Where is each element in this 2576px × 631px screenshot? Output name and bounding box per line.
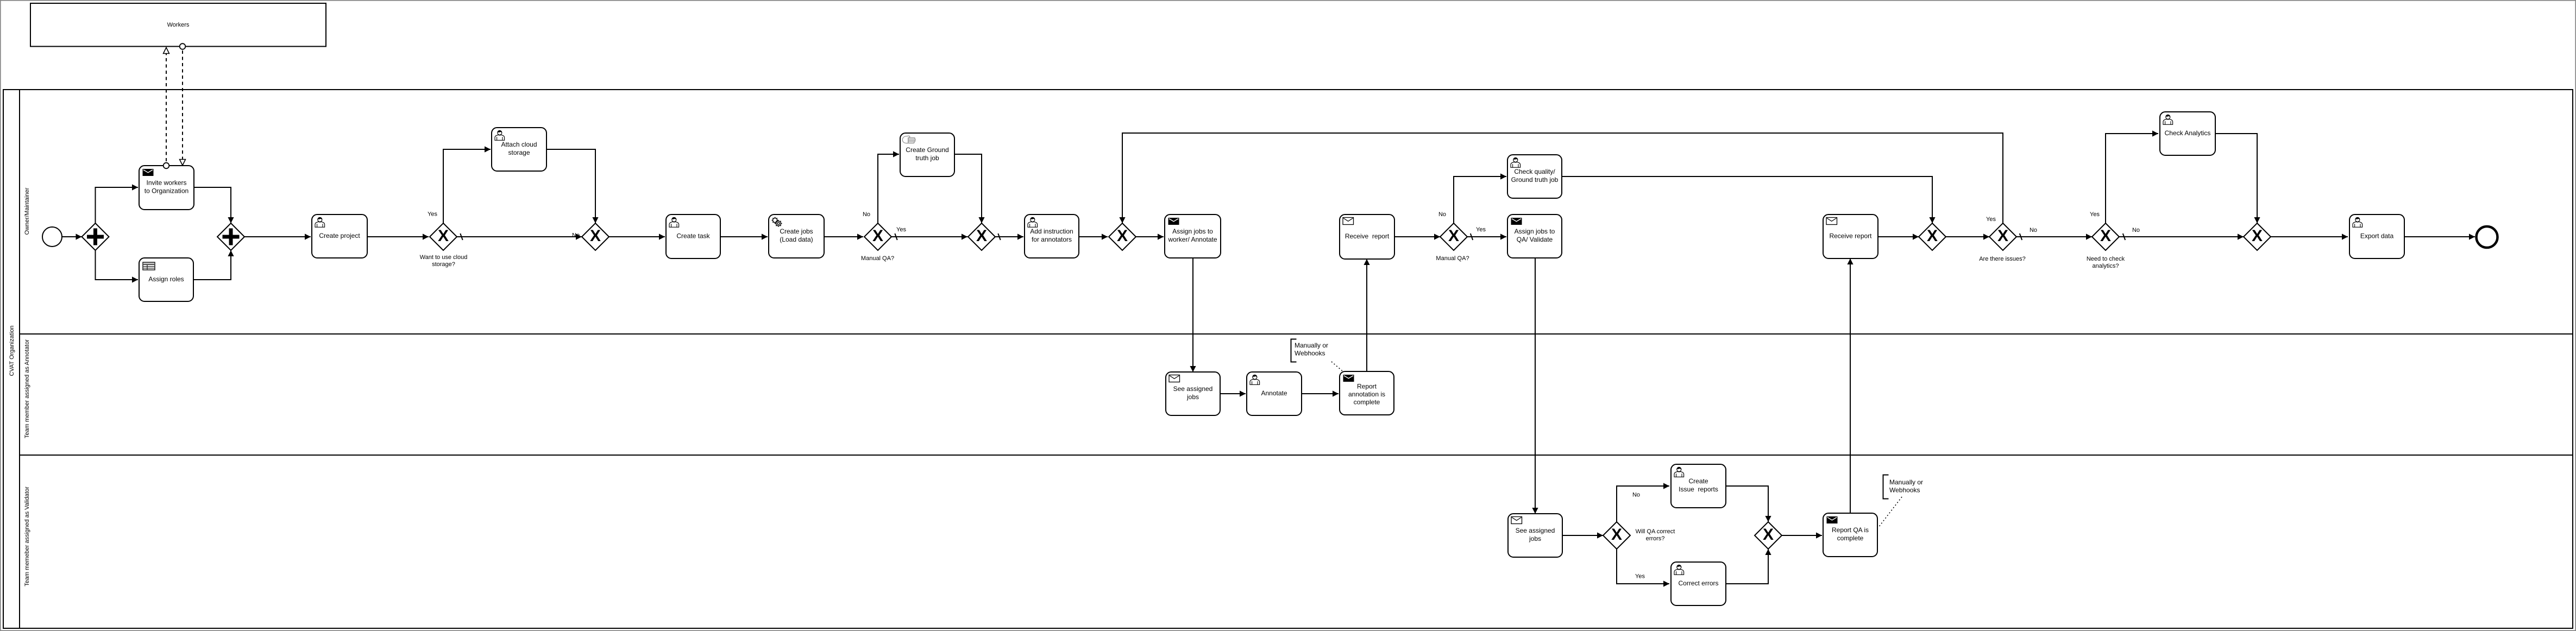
message flow Workers to task <box>180 43 186 165</box>
wire Assign roles to parallel join <box>193 250 234 280</box>
task See assigned jobs validator <box>1508 514 1562 557</box>
wire Annotate to Report annotation <box>1302 390 1339 396</box>
svg-text:complete: complete <box>1354 399 1380 406</box>
gateway Need to check analytics? <box>2092 223 2119 250</box>
node label No issues <box>2030 227 2037 234</box>
wire issues join to Are there issues <box>1946 234 1989 239</box>
task Add instruction for annotators <box>1025 214 1079 258</box>
svg-text:X: X <box>976 227 987 245</box>
wire Receive report 2 to issues join <box>1878 234 1919 239</box>
lane Team member assigned as Annotator <box>20 334 2573 438</box>
wire Add instruction to loop gateway <box>1079 234 1108 239</box>
svg-text:Will QA correct: Will QA correct <box>1636 528 1675 535</box>
lane Team memeber assigned as Validator <box>20 455 2573 586</box>
gateway parallel split <box>82 223 109 250</box>
task Assign roles <box>139 258 193 301</box>
svg-text:worker/ Annotate: worker/ Annotate <box>1167 236 1217 243</box>
svg-text:to Organization: to Organization <box>144 187 189 195</box>
wire Export data to end <box>2405 234 2475 239</box>
task Report QA is complete <box>1823 513 1877 557</box>
wire cloud join to Create task <box>609 234 665 239</box>
task Check Analytics <box>2160 112 2215 155</box>
wire loop gateway to Assign jobs worker <box>1136 234 1164 239</box>
gateway issues join <box>1919 223 1946 250</box>
wire cloud gateway default to join <box>457 232 582 240</box>
task Correct errors <box>1671 562 1726 605</box>
svg-text:No: No <box>2132 227 2140 234</box>
node label Yes manualqa1 <box>896 226 906 233</box>
node label No manualqa2 <box>1438 211 1446 218</box>
svg-text:Need to check: Need to check <box>2087 256 2125 262</box>
svg-text:QA/ Validate: QA/ Validate <box>1517 236 1553 243</box>
svg-text:analytics?: analytics? <box>2093 263 2119 269</box>
svg-text:Create task: Create task <box>676 232 710 240</box>
svg-text:Report QA is: Report QA is <box>1832 526 1869 534</box>
node label No analytics <box>2132 227 2140 234</box>
node label need analytics label <box>2087 256 2125 269</box>
annotation Manually or Webhooks (annotator) <box>1291 339 1343 371</box>
wire cloud gateway Yes to Attach cloud storage <box>443 146 491 223</box>
svg-text:Attach cloud: Attach cloud <box>501 141 537 148</box>
wire Assign jobs QA down to See assigned jobs validator <box>1532 258 1538 514</box>
svg-text:X: X <box>2252 227 2263 245</box>
svg-text:Receive report: Receive report <box>1345 232 1390 240</box>
wire See assigned jobs to Annotate <box>1220 390 1246 396</box>
task Attach cloud storage <box>492 128 546 171</box>
svg-text:No: No <box>863 211 870 218</box>
svg-text:errors?: errors? <box>1646 535 1665 542</box>
wire Correct errors to v join <box>1726 549 1771 584</box>
wire Check quality to issues join <box>1562 176 1936 223</box>
wire Are there issues Yes loop back <box>1119 133 2003 223</box>
svg-text:Assign jobs to: Assign jobs to <box>1172 228 1213 235</box>
wire Will QA No to Create Issue reports <box>1617 483 1669 522</box>
node label manual qa 1 label <box>861 255 894 262</box>
svg-text:Yes: Yes <box>896 226 906 233</box>
svg-text:Manual QA?: Manual QA? <box>861 255 894 262</box>
svg-text:Check quality/: Check quality/ <box>1514 168 1555 175</box>
svg-text:for annotators: for annotators <box>1032 236 1072 243</box>
svg-text:Correct errors: Correct errors <box>1678 579 1718 587</box>
svg-text:X: X <box>590 227 601 245</box>
gateway validator join <box>1755 522 1782 549</box>
wire analytics Yes to Check Analytics <box>2106 130 2158 223</box>
wire Will QA Yes to Correct errors <box>1617 549 1669 587</box>
svg-text:Team member assigned as Annota: Team member assigned as Annotator <box>24 339 30 439</box>
start event <box>42 227 62 247</box>
wire Manual QA 2 Yes to Assign jobs QA <box>1467 234 1506 240</box>
task Invite workers to Organization <box>139 166 194 210</box>
svg-text:See assigned: See assigned <box>1173 385 1213 393</box>
svg-text:Yes: Yes <box>428 211 437 218</box>
svg-text:See assigned: See assigned <box>1516 527 1555 534</box>
svg-text:Receive report: Receive report <box>1829 232 1872 240</box>
wire Report annotation up to Receive report 1 <box>1364 259 1369 371</box>
wire Manual QA Yes to join <box>891 234 967 240</box>
node label Yes manualqa2 <box>1476 226 1486 233</box>
svg-text:Webhooks: Webhooks <box>1889 487 1920 494</box>
node label No manualqa1 <box>863 211 870 218</box>
wire Report QA up to Receive report 2 <box>1847 258 1853 513</box>
svg-text:No: No <box>1632 492 1640 499</box>
node label Yes cloud <box>428 211 437 218</box>
wire final join to Export data <box>2271 234 2348 239</box>
svg-text:Yes: Yes <box>1986 216 1996 223</box>
svg-text:Want to use cloud: Want to use cloud <box>420 254 468 261</box>
wire Assign jobs worker down to See assigned jobs <box>1190 258 1196 372</box>
wire Are there issues No to analytics gateway <box>2016 234 2092 240</box>
svg-text:Manual QA?: Manual QA? <box>1436 255 1469 262</box>
task Check quality/ Ground truth job <box>1507 155 1562 198</box>
node label manual qa 2 label <box>1436 255 1469 262</box>
node label Yes willqa <box>1635 573 1645 580</box>
message flow task to Workers <box>164 48 169 169</box>
svg-text:(Load data): (Load data) <box>780 236 813 243</box>
svg-text:Create project: Create project <box>319 232 360 239</box>
gateway Want to use cloud storage? <box>430 223 457 250</box>
svg-text:jobs: jobs <box>1529 535 1541 542</box>
wire Manual QA No to Create Ground truth job <box>878 151 899 223</box>
annotation Manually or Webhooks (validator) <box>1878 475 1923 528</box>
svg-text:X: X <box>1611 526 1622 544</box>
svg-text:CVAT Organization: CVAT Organization <box>9 326 15 376</box>
svg-text:Create Ground: Create Ground <box>906 146 948 154</box>
wire parallel to Assign roles <box>96 250 139 283</box>
svg-text:Check Analytics: Check Analytics <box>2165 129 2211 137</box>
svg-text:X: X <box>1997 227 2008 245</box>
svg-text:X: X <box>438 227 449 245</box>
svg-text:truth job: truth job <box>915 154 939 162</box>
svg-text:Workers: Workers <box>167 22 190 28</box>
gateway Manual QA? 1 <box>864 223 891 250</box>
svg-text:Owner/Maintainer: Owner/Maintainer <box>24 187 30 235</box>
svg-text:annotation is: annotation is <box>1348 390 1385 398</box>
wire Create Ground truth job to join <box>954 154 985 223</box>
node label Yes analytics <box>2090 211 2100 218</box>
task Assign jobs to QA/ Validate <box>1507 214 1562 258</box>
svg-text:complete: complete <box>1837 534 1864 542</box>
wire Attach cloud storage to join <box>546 149 599 223</box>
gateway Manual QA? 2 <box>1440 223 1467 250</box>
svg-text:Manually or: Manually or <box>1889 478 1923 486</box>
svg-text:Yes: Yes <box>2090 211 2100 218</box>
gateway ground truth join <box>968 223 995 250</box>
wire Manual QA 2 No to Check quality <box>1454 173 1506 223</box>
task Create jobs (Load data) <box>769 214 824 258</box>
wire Create project to cloud gateway <box>367 234 429 239</box>
task Export data <box>2349 214 2404 258</box>
svg-text:Report: Report <box>1357 383 1377 390</box>
svg-text:Assign roles: Assign roles <box>148 275 184 283</box>
svg-text:storage: storage <box>508 149 530 156</box>
svg-text:Issue reports: Issue reports <box>1679 485 1718 493</box>
end event <box>2477 226 2498 248</box>
svg-text:No: No <box>2030 227 2037 234</box>
task Create task <box>666 214 720 258</box>
wire analytics No to final join <box>2119 234 2244 240</box>
wire parallel to Invite workers <box>96 184 139 223</box>
node label Yes issues <box>1986 216 1996 223</box>
node label No willqa <box>1632 492 1640 499</box>
svg-text:Yes: Yes <box>1476 226 1486 233</box>
svg-text:Annotate: Annotate <box>1261 389 1287 397</box>
svg-text:Create: Create <box>1688 477 1708 485</box>
svg-text:Create jobs: Create jobs <box>780 228 813 235</box>
svg-text:X: X <box>1448 227 1459 245</box>
task Create Issue reports <box>1671 464 1726 508</box>
svg-text:Invite workers: Invite workers <box>146 179 186 187</box>
task Create Ground truth job <box>900 133 954 176</box>
node label are there issues label <box>1979 256 2026 262</box>
gateway final join <box>2244 223 2271 250</box>
wire Create jobs to Manual QA gateway <box>824 234 863 239</box>
wire Create task to Create jobs <box>720 234 768 239</box>
wire start to parallel gateway <box>62 234 82 239</box>
gateway parallel join <box>217 223 244 250</box>
svg-text:Assign jobs to: Assign jobs to <box>1515 228 1555 235</box>
wire See assigned jobs v to Will QA gateway <box>1562 532 1603 538</box>
gateway loop join <box>1109 223 1136 250</box>
node label will qa label <box>1636 528 1675 542</box>
task See assigned jobs annotator <box>1166 372 1220 415</box>
wire Create Issue reports to v join <box>1726 486 1771 522</box>
task Receive report 2 <box>1823 214 1878 258</box>
svg-text:Yes: Yes <box>1635 573 1645 580</box>
svg-text:Ground truth job: Ground truth job <box>1511 176 1559 184</box>
svg-text:jobs: jobs <box>1186 393 1199 401</box>
svg-text:No: No <box>1438 211 1446 218</box>
svg-text:X: X <box>2100 227 2111 245</box>
wire Invite workers to parallel join <box>194 187 234 223</box>
svg-text:storage?: storage? <box>432 261 455 268</box>
task Create project <box>312 214 367 258</box>
svg-text:X: X <box>1117 227 1128 245</box>
gateway cloud join <box>582 223 609 250</box>
svg-text:X: X <box>1927 227 1938 245</box>
task Receive report 1 <box>1340 214 1394 259</box>
task Annotate <box>1247 372 1302 415</box>
wire parallel join to Create project <box>244 234 311 239</box>
wire v join to Report QA <box>1782 532 1822 538</box>
svg-text:X: X <box>1763 526 1774 544</box>
svg-text:Export data: Export data <box>2360 232 2394 240</box>
wire gt join to Add instruction <box>995 234 1023 240</box>
gateway Will QA correct errors? <box>1603 522 1630 549</box>
lane Owner/Maintainer <box>24 187 30 235</box>
svg-text:Manually or: Manually or <box>1295 342 1328 349</box>
svg-text:Webhooks: Webhooks <box>1295 350 1325 357</box>
svg-text:Team memeber assigned as Valid: Team memeber assigned as Validator <box>24 487 30 586</box>
task Report annotation is complete <box>1340 371 1394 415</box>
wire Check Analytics to final join <box>2215 134 2260 223</box>
task Assign jobs to worker/ Annotate <box>1165 214 1221 258</box>
svg-text:Add instruction: Add instruction <box>1030 228 1073 235</box>
svg-text:X: X <box>872 227 883 245</box>
svg-text:Are there issues?: Are there issues? <box>1979 256 2026 262</box>
pool Workers <box>30 3 326 47</box>
gateway Are there issues? <box>1989 223 2016 250</box>
wire Receive report 1 to Manual QA 2 <box>1394 234 1440 239</box>
node label want cloud label <box>420 254 468 268</box>
